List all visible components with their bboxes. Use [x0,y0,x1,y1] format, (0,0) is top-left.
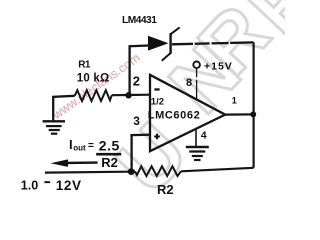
svg-text:1/2: 1/2 [151,96,164,107]
svg-text:10 kΩ: 10 kΩ [77,72,110,84]
svg-text:4: 4 [201,130,207,142]
svg-text:LM4431: LM4431 [122,15,157,26]
svg-text:out: out [73,144,86,153]
svg-text:3: 3 [133,114,140,128]
svg-text:R1: R1 [78,59,91,70]
svg-text:1: 1 [232,95,237,105]
svg-text:2: 2 [133,73,140,88]
svg-text:8: 8 [186,77,192,89]
svg-text:=: = [88,140,94,151]
svg-text:12V: 12V [56,178,82,193]
svg-text:R2: R2 [101,155,118,170]
svg-text:R2: R2 [157,182,174,197]
svg-text:2.5: 2.5 [99,137,120,153]
svg-text:+15V: +15V [204,61,233,73]
svg-text:1.0: 1.0 [21,179,38,193]
svg-text:LMC6062: LMC6062 [148,110,201,122]
svg-text:I: I [69,137,73,152]
